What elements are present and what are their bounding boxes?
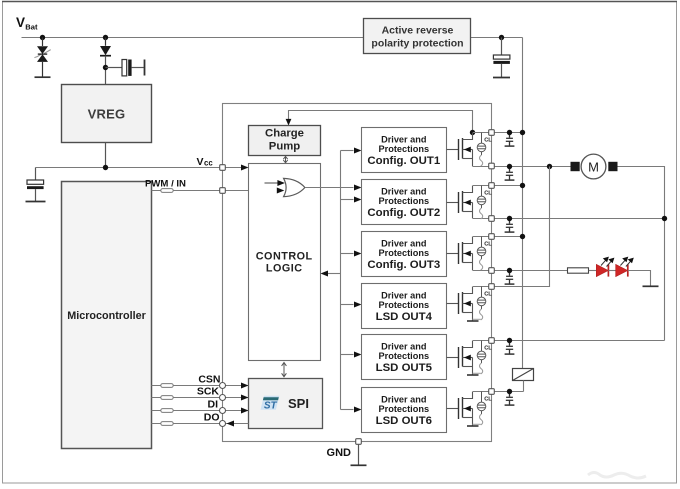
svg-text:Config. OUT3: Config. OUT3 (367, 259, 440, 271)
diode D2 series (100, 38, 111, 85)
svg-text:Config. OUT1: Config. OUT1 (367, 155, 440, 167)
ground TVS (35, 76, 51, 78)
TVS bidirectional zener D1 (34, 38, 50, 77)
wire motor right riser (618, 167, 665, 341)
VREG block (62, 85, 152, 143)
wire VREG output (105, 143, 107, 168)
svg-text:LOGIC: LOGIC (266, 263, 303, 275)
svg-text:Microcontroller: Microcontroller (67, 310, 146, 322)
svg-text:CONTROL: CONTROL (256, 251, 313, 263)
svg-text:GND: GND (327, 447, 352, 459)
pin pad CSN (220, 383, 226, 389)
wire bus branch OUT5 (341, 354, 354, 356)
transistor output stage LSD OUT5 (447, 341, 493, 376)
wire OUT2 source row (492, 218, 665, 220)
ground C2 (26, 201, 46, 203)
wire bus branch OUT3 (341, 253, 354, 255)
OR gate U2 (284, 178, 305, 196)
wire PWM arrow into OR gate (277, 188, 285, 194)
wire bus branch OUT2 second (341, 199, 354, 201)
Charge Pump block (249, 126, 321, 156)
driver block LSD OUT5 (362, 335, 447, 380)
capacitor C4 OUT1 drain (505, 133, 515, 147)
capacitor C7 OUT3 source (505, 271, 515, 285)
driver block LSD OUT4 (362, 284, 447, 329)
svg-text:Pump: Pump (269, 140, 300, 152)
wire bus branch OUT1 (341, 150, 354, 152)
svg-text:Protections: Protections (379, 144, 430, 154)
wire OUT3 drain row (492, 236, 523, 238)
wire OUT6 drain row to relay (492, 391, 524, 393)
CONTROL LOGIC block (249, 164, 321, 361)
capacitor C3 supply (493, 38, 510, 78)
svg-text:Protections: Protections (379, 404, 430, 414)
transistor output stage Config. OUT2 (447, 186, 493, 220)
node junction OUT4 riser motor-left (547, 164, 552, 169)
wire OUT2 drain row (492, 185, 523, 187)
wire DO (152, 423, 249, 425)
driver block LSD OUT6 (362, 388, 447, 433)
svg-text:Config. OUT2: Config. OUT2 (367, 207, 440, 219)
LED D3 (596, 257, 614, 277)
pin pad OUT row 166 (489, 163, 495, 169)
wire bus branch OUT4 (341, 304, 354, 306)
svg-text:DI: DI (208, 398, 219, 410)
svg-text:Active reverse: Active reverse (382, 25, 454, 37)
svg-text:CL: CL (484, 242, 492, 248)
svg-text:Driver and: Driver and (381, 134, 426, 144)
Microcontroller block (62, 182, 152, 449)
wire resistor to LED1 (589, 270, 597, 272)
capacitor C6 OUT2 source (505, 219, 515, 233)
driver block Config. OUT2 (362, 180, 447, 225)
Active reverse polarity protection block (364, 19, 471, 54)
pin pad OUT row 185.5 (489, 183, 495, 189)
ground LED return (643, 285, 659, 287)
svg-text:Driver and: Driver and (381, 341, 426, 351)
wire OUT1 source row to motor (492, 166, 571, 168)
pin pad GND (356, 439, 362, 445)
transistor output stage Config. OUT3 (447, 237, 493, 271)
wire LED1 to LED2 (608, 270, 615, 272)
svg-text:M: M (588, 159, 599, 174)
LED D4 (616, 257, 634, 277)
wire OUT5 drain row (492, 340, 665, 342)
IC main outline U1 (223, 104, 492, 442)
svg-text:CL: CL (484, 292, 492, 298)
pin pad SCK (220, 395, 226, 401)
wire LED2 to ground (628, 271, 651, 287)
ground C3 (493, 77, 510, 79)
SPI block (249, 379, 323, 429)
watermark (588, 473, 646, 479)
wire OR output to OUT2 (305, 187, 354, 189)
svg-text:Protections: Protections (379, 351, 430, 361)
svg-text:CL: CL (484, 346, 492, 352)
svg-text:SCK: SCK (197, 385, 220, 397)
wire DI (152, 410, 249, 412)
node VBat label (16, 15, 38, 32)
wire PWM line (152, 190, 278, 192)
motor M1 (571, 154, 618, 179)
label Vcc (197, 156, 214, 168)
resistor bead PWM (161, 189, 173, 193)
node junction rail diode (103, 35, 108, 40)
svg-text:V: V (197, 156, 204, 168)
node junction supply cap tap (499, 35, 504, 40)
svg-text:CSN: CSN (198, 373, 220, 385)
pin pad DO (220, 421, 226, 427)
capacitor C2 microcontroller supply (27, 168, 44, 202)
svg-text:VREG: VREG (88, 107, 126, 122)
svg-text:V: V (16, 15, 25, 30)
wire VBat rail (22, 37, 365, 39)
svg-text:LSD OUT5: LSD OUT5 (376, 362, 433, 374)
svg-text:Driver and: Driver and (381, 394, 426, 404)
wire Vcc rail (36, 167, 243, 169)
pin pad Vcc (220, 165, 226, 171)
wire control bus vertical (340, 151, 342, 410)
wire double arrow control logic / SPI (282, 363, 287, 377)
svg-text:LSD OUT6: LSD OUT6 (376, 415, 432, 427)
ground GND pin (351, 464, 367, 466)
node junction rail TVS (40, 35, 45, 40)
pin pad OUT row 132.5 (489, 130, 495, 136)
svg-text:Driver and: Driver and (381, 186, 426, 196)
wire bus branch OUT6 (341, 409, 354, 411)
svg-text:Protections: Protections (379, 248, 430, 258)
node junction OUT2 source riser (662, 216, 667, 221)
wire SCK (152, 397, 249, 399)
pin pad OUT row 270.5 (489, 268, 495, 274)
svg-text:cc: cc (204, 158, 213, 167)
node junction internal rail OUT1 drain (470, 130, 475, 135)
wire battery vertical feed (522, 38, 524, 370)
svg-text:SPI: SPI (288, 396, 309, 411)
transistor output stage LSD OUT6 (447, 392, 493, 427)
svg-text:CL: CL (484, 138, 492, 144)
svg-text:PWM / IN: PWM / IN (145, 179, 186, 190)
transistor output stage LSD OUT4 (447, 287, 493, 322)
driver block Config. OUT3 (362, 232, 447, 277)
node junction Vcc VREG (103, 165, 108, 170)
wire bus feedback into control logic (328, 273, 341, 275)
relay K1 (513, 369, 534, 392)
pin pad PWM (220, 188, 226, 194)
svg-text:LSD OUT4: LSD OUT4 (376, 311, 433, 323)
svg-text:Protections: Protections (379, 196, 430, 206)
svg-text:Driver and: Driver and (381, 238, 426, 248)
wire OUT1 drain row (492, 132, 523, 134)
pin pad OUT row 218.5 (489, 216, 495, 222)
capacitor C9 OUT6 (505, 392, 515, 406)
wire Vcc arrow into control logic (241, 165, 249, 171)
svg-text:CL: CL (484, 191, 492, 197)
svg-text:DO: DO (204, 411, 220, 423)
wire OUT3 source row to LEDs (492, 270, 569, 272)
GND pin wire (358, 442, 360, 466)
svg-text:Protections: Protections (379, 300, 430, 310)
capacitor C1 VREG input (106, 60, 145, 76)
node junction diode cap (103, 65, 108, 70)
wire CSN (152, 385, 249, 387)
driver block Config. OUT1 (362, 128, 447, 173)
wire stub OR gate upper input (265, 182, 279, 184)
svg-text:Bat: Bat (25, 23, 38, 32)
wire OUT4 drain row and riser (492, 167, 550, 287)
svg-text:Charge: Charge (265, 128, 304, 140)
transistor output stage Config. OUT1 (447, 133, 493, 167)
ST logo (261, 396, 280, 412)
pin pad OUT row 391.5 (489, 389, 495, 395)
pin pad DI (220, 408, 226, 414)
capacitor C5 OUT1 source (505, 167, 515, 181)
pin pad OUT row 236.5 (489, 234, 495, 240)
svg-text:CL: CL (484, 397, 492, 403)
wire internal supply rail to charge pump (289, 111, 473, 133)
svg-text:Driver and: Driver and (381, 290, 426, 300)
pin pad OUT row 340.5 (489, 338, 495, 344)
svg-text:ST: ST (264, 400, 278, 411)
wire double arrow charge pump / control logic (283, 156, 287, 162)
wire VBat rail right segment (471, 37, 523, 39)
svg-text:polarity protection: polarity protection (371, 38, 463, 50)
capacitor C8 OUT5 (505, 341, 515, 355)
resistor R1 LED series (568, 268, 589, 273)
pin pad OUT row 286.5 (489, 284, 495, 290)
